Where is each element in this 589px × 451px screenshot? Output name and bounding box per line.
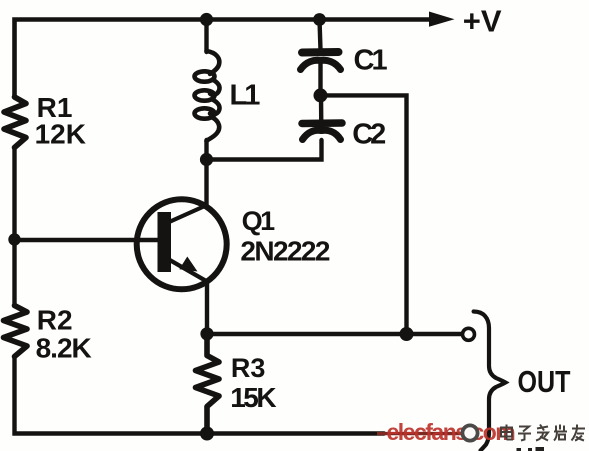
- watermark chinese 电子发烧友: [501, 425, 585, 441]
- watermark ring terminal OUT bottom: [462, 425, 477, 440]
- svg-text:15K: 15K: [230, 382, 276, 413]
- wire emitter row: [207, 332, 461, 336]
- node L1 bottom: [200, 153, 213, 166]
- wire collector vertical: [204, 159, 208, 206]
- node base-left rail: [8, 233, 20, 245]
- wire left rail bottom: [15, 357, 385, 434]
- wire C1 bottom lead to junction: [318, 61, 322, 96]
- node bottom rail R3: [200, 427, 214, 441]
- node emitter-R3: [200, 327, 213, 340]
- node C1-C2 junction: [314, 88, 328, 102]
- watermark elecfans.com: [377, 419, 515, 445]
- wire L1 top lead: [204, 20, 208, 53]
- wire L1 bottom lead: [204, 140, 208, 159]
- capacitor C2: [302, 123, 342, 140]
- wire left rail middle: [12, 148, 16, 305]
- svg-text:2N2222: 2N2222: [240, 235, 330, 266]
- svg-text:C2: C2: [352, 118, 385, 150]
- inductor L1: [195, 51, 220, 141]
- svg-text:12K: 12K: [35, 119, 86, 150]
- svg-text:R2: R2: [37, 305, 73, 336]
- wire top rail: [15, 20, 431, 98]
- resistor R2: [4, 306, 28, 357]
- brace OUT: [474, 312, 506, 451]
- wire L1-node to C2 bottom: [207, 140, 322, 160]
- svg-text:elecfans.com: elecfans.com: [387, 419, 516, 445]
- node feedback-emitter row: [400, 327, 414, 341]
- svg-text:OUT: OUT: [518, 363, 571, 398]
- wire emitter vertical: [205, 282, 209, 335]
- capacitor C1: [301, 52, 341, 70]
- resistor R3: [196, 334, 220, 434]
- terminal OUT top: [463, 328, 475, 340]
- svg-text:C1: C1: [354, 44, 388, 76]
- wire C1 top lead: [320, 20, 321, 51]
- svg-text:8.2K: 8.2K: [36, 332, 92, 363]
- node top rail C1: [313, 13, 326, 26]
- arrow +V supply: [429, 12, 455, 27]
- svg-text:Q1: Q1: [242, 206, 276, 236]
- wire junction to feedback corner: [321, 95, 407, 334]
- wire C2 top lead: [319, 96, 324, 128]
- cutoff glyphs bottom edge: [517, 447, 545, 451]
- resistor R1: [4, 97, 26, 148]
- svg-text:R3: R3: [231, 353, 266, 383]
- svg-text:L1: L1: [230, 80, 261, 112]
- svg-text:+V: +V: [463, 4, 502, 39]
- wire base lead: [15, 238, 160, 242]
- transistor Q1: [137, 199, 227, 289]
- node top rail L1: [200, 13, 213, 26]
